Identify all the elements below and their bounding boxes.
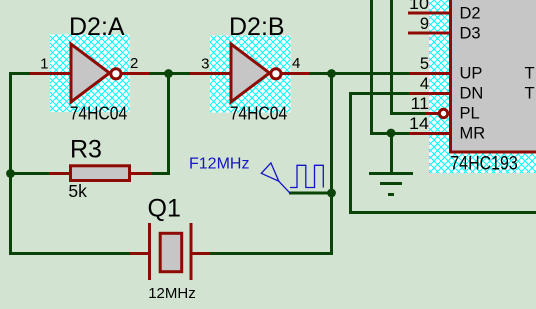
svg-text:74HC04: 74HC04: [230, 103, 288, 123]
svg-text:T: T: [525, 85, 535, 103]
svg-text:D2: D2: [460, 5, 481, 23]
svg-text:D2:B: D2:B: [229, 13, 285, 41]
svg-text:74HC04: 74HC04: [70, 103, 128, 123]
svg-text:Q1: Q1: [148, 195, 181, 223]
svg-text:D3: D3: [460, 25, 481, 43]
svg-text:74HC193: 74HC193: [450, 154, 518, 175]
svg-text:4: 4: [292, 55, 300, 72]
svg-text:R3: R3: [70, 136, 102, 164]
svg-text:T: T: [525, 65, 535, 83]
svg-text:11: 11: [411, 95, 430, 113]
svg-text:DN: DN: [460, 85, 484, 103]
svg-text:MR: MR: [460, 125, 486, 143]
svg-text:4: 4: [420, 75, 429, 93]
svg-text:D2:A: D2:A: [69, 13, 125, 41]
svg-text:1: 1: [40, 56, 48, 73]
svg-text:10: 10: [409, 0, 429, 13]
svg-text:14: 14: [409, 115, 429, 133]
svg-text:2: 2: [130, 55, 138, 72]
svg-text:5k: 5k: [68, 181, 87, 201]
svg-text:3: 3: [201, 56, 209, 73]
svg-text:PL: PL: [460, 105, 480, 123]
svg-text:F12MHz: F12MHz: [189, 156, 249, 173]
svg-text:12MHz: 12MHz: [148, 285, 196, 302]
svg-text:9: 9: [420, 15, 429, 33]
svg-text:5: 5: [420, 55, 429, 73]
svg-text:UP: UP: [460, 65, 483, 83]
